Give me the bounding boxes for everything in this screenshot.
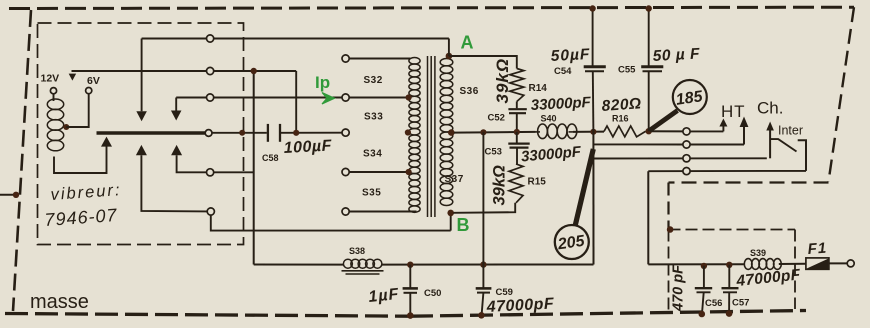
junction C50 branch xyxy=(407,262,413,268)
wire row 144.5 to Ch arrow xyxy=(690,144,744,146)
wire C57 lead xyxy=(728,265,730,288)
contact arrow 1 (down) xyxy=(136,111,147,121)
S40 leads xyxy=(536,131,541,133)
switch Inter contact xyxy=(798,140,806,171)
junction C58 right xyxy=(293,130,299,136)
svg-text:R16: R16 xyxy=(612,114,629,124)
wire tap row 211.5 xyxy=(349,211,417,213)
masse chassis border left (tilted) xyxy=(13,10,31,311)
junction C50 masse xyxy=(407,312,414,319)
wire C50 to masse xyxy=(409,293,411,316)
socket terminal 1 xyxy=(207,35,214,42)
wire C55 to R16 node xyxy=(648,71,650,131)
primary tap junction row172 xyxy=(406,169,412,175)
wire C59 to masse xyxy=(482,293,484,315)
wire row132 to C53 xyxy=(516,132,518,143)
capacitor C57 plates xyxy=(722,287,739,289)
wire drop to contact arrow 1 xyxy=(141,39,143,112)
junction C59/S38 row xyxy=(480,261,486,267)
capacitor C59 plates xyxy=(476,287,492,290)
wire elbow below terminal 6 xyxy=(211,215,451,231)
tap terminal row 211.5 xyxy=(342,208,349,215)
capacitor C55 plates xyxy=(641,65,663,68)
svg-text:C56: C56 xyxy=(705,298,722,309)
svg-text:C55: C55 xyxy=(618,65,636,76)
wire C59 vertical xyxy=(482,132,484,287)
wire coil tap to 6V xyxy=(66,94,88,127)
svg-text:820Ω: 820Ω xyxy=(601,95,642,115)
svg-text:masse: masse xyxy=(30,291,89,313)
choke S40 xyxy=(538,124,548,139)
svg-text:12V: 12V xyxy=(41,73,60,85)
masse chassis border top xyxy=(9,7,854,8)
wire C50 lead xyxy=(409,265,411,288)
svg-text:C54: C54 xyxy=(554,66,572,77)
transformer core xyxy=(427,56,429,217)
terminal 6V xyxy=(86,88,92,94)
svg-text:S38: S38 xyxy=(349,246,365,256)
filter box top edge xyxy=(669,229,796,231)
wire reed row to C58 xyxy=(212,132,267,134)
output terminal circle row131 xyxy=(683,128,690,135)
masse stub wire at left edge xyxy=(0,194,19,196)
wire C54 to row132 xyxy=(592,71,595,132)
coil tap junction xyxy=(63,124,69,130)
svg-text:Ch.: Ch. xyxy=(757,99,783,118)
secondary top junction (node A) xyxy=(446,53,453,60)
capacitor C53 plates xyxy=(508,143,529,145)
wire drop x296 row71 to C58 right xyxy=(295,71,297,133)
wire bus to S38 xyxy=(254,264,344,266)
junction C57 masse xyxy=(726,310,733,317)
wire output row 144.4 xyxy=(594,143,684,145)
output terminal xyxy=(847,260,854,267)
wire tap row 58.5 xyxy=(349,58,411,60)
contact arrow B (up) xyxy=(136,145,147,155)
junction C56 masse xyxy=(699,311,706,318)
capacitor C52 plates xyxy=(508,108,526,110)
wire row132 secondary tap to S40 xyxy=(454,131,536,134)
socket terminal 3 xyxy=(207,94,214,101)
primary tap junction row97.5 xyxy=(406,94,412,100)
supply bus x=593.4 down xyxy=(592,132,594,265)
junction C54 at masse xyxy=(589,5,595,11)
junction C59 masse xyxy=(478,312,485,319)
masse chassis border bottom xyxy=(5,314,410,317)
transformer primary winding (S32-S35) xyxy=(409,58,420,65)
wire F1 to output xyxy=(829,262,847,264)
filter box left edge xyxy=(668,230,670,314)
wire Ch-bus drop x648 xyxy=(647,171,649,264)
wire coil bottom to contact arm xyxy=(54,147,107,174)
svg-text:100µF: 100µF xyxy=(283,137,333,157)
choke S39 xyxy=(744,259,752,270)
transformer secondary winding (S36,S37) xyxy=(440,59,453,66)
contact arrow C (up) xyxy=(171,145,182,155)
svg-text:S40: S40 xyxy=(541,114,557,124)
svg-text:HT: HT xyxy=(721,102,745,121)
junction C57 branch xyxy=(726,262,732,268)
test point 205 pointer xyxy=(575,149,594,229)
resistor R14 (39kΩ) xyxy=(510,69,524,102)
wire arrow B to terminal row 211.5 xyxy=(141,155,207,211)
supply arrow (down) near 6V xyxy=(69,74,77,81)
junction C52/C53 row132 xyxy=(514,129,520,135)
wire C56 to masse xyxy=(702,292,704,313)
vibreur box (dashed) xyxy=(38,23,244,245)
svg-text:A: A xyxy=(461,33,474,53)
wire tap row 172 xyxy=(349,171,409,173)
wire row 131.4 to HT xyxy=(690,130,723,132)
junction C54 row132 xyxy=(590,129,596,135)
svg-text:R14: R14 xyxy=(529,83,548,94)
masse border drop to filter box xyxy=(667,183,669,230)
wire S39 to F1 xyxy=(779,263,806,265)
switch Inter blade xyxy=(770,139,796,151)
wire output row 171 xyxy=(648,170,806,172)
svg-text:1µF: 1µF xyxy=(368,286,401,306)
svg-text:C53: C53 xyxy=(485,147,502,158)
output terminal circle row158 xyxy=(683,155,690,162)
svg-text:C50: C50 xyxy=(424,288,441,299)
reed bar (thick) xyxy=(97,131,206,135)
svg-text:50 µ F: 50 µ F xyxy=(652,46,700,65)
tap terminal row 97.5 xyxy=(342,94,349,101)
svg-text:47000pF: 47000pF xyxy=(485,295,555,316)
wire S40 to R16 xyxy=(573,131,604,133)
wire terminal row 38.5 xyxy=(142,38,449,40)
wire filter input row xyxy=(648,263,744,265)
svg-text:B: B xyxy=(457,215,470,235)
junction R16/C55 node xyxy=(646,128,652,134)
wire arrow C to terminal row 172.3 xyxy=(177,155,207,172)
socket terminal 2 xyxy=(207,67,214,74)
green Ip arrow xyxy=(322,93,335,105)
wire R14 to C52 xyxy=(516,102,518,109)
wire C54 top to masse border xyxy=(592,9,594,67)
secondary bottom junction (node B) xyxy=(447,210,454,217)
svg-text:39kΩ: 39kΩ xyxy=(491,165,509,206)
vertical bus x=253.7 xyxy=(253,71,255,265)
contact arrow A (up) xyxy=(101,137,112,147)
primary tap junction row132.6 xyxy=(405,129,411,135)
filter box right edge xyxy=(794,230,796,310)
svg-text:S37: S37 xyxy=(445,174,464,185)
contact arrow 2 (down) xyxy=(171,111,182,121)
vibrator drive coil L1 xyxy=(47,99,63,110)
HT arrow xyxy=(722,126,724,132)
svg-text:6V: 6V xyxy=(87,75,100,87)
capacitor C58 plates xyxy=(267,124,269,142)
junction C56 branch xyxy=(701,263,707,269)
Inter arrow xyxy=(769,130,771,158)
wire row38.5 drop to A xyxy=(448,39,450,57)
wire output row 158.4 xyxy=(594,157,767,159)
svg-text:C57: C57 xyxy=(732,298,749,309)
resistor R16 (820Ω) xyxy=(604,126,646,137)
socket terminal 5 xyxy=(207,169,214,176)
wire R15 bottom to node B xyxy=(454,203,516,213)
wire R16 to terminal xyxy=(646,130,684,132)
reed terminal circle xyxy=(205,130,212,137)
wire C57 to masse xyxy=(728,292,730,313)
wire C55 top to masse border xyxy=(648,9,650,67)
tap terminal row 132.6 xyxy=(342,129,349,136)
svg-text:39kΩ: 39kΩ xyxy=(493,58,512,104)
junction C59 branch xyxy=(480,129,486,135)
wire C58 right xyxy=(281,132,342,134)
socket terminal 6 xyxy=(207,208,214,215)
svg-text:Inter: Inter xyxy=(778,124,803,138)
secondary center tap junction xyxy=(448,129,455,136)
svg-text:S39: S39 xyxy=(750,248,766,258)
test point 205 circle xyxy=(555,225,589,259)
svg-text:470 pF: 470 pF xyxy=(671,264,687,312)
wire C53 to R15 xyxy=(516,148,518,164)
S38 core lines xyxy=(342,270,384,272)
wire B drop xyxy=(450,214,452,230)
output terminal circle row144 xyxy=(683,141,690,148)
test point 185 pointer xyxy=(650,111,678,131)
svg-text:R15: R15 xyxy=(528,177,547,188)
wire terminal row 71 xyxy=(72,70,297,72)
terminal 12V xyxy=(50,88,56,94)
svg-text:S35: S35 xyxy=(362,188,381,199)
svg-text:S36: S36 xyxy=(460,86,479,97)
fuse F1 xyxy=(806,258,829,269)
output terminal circle row171 xyxy=(683,168,690,175)
wire drop to contact arrow 2 xyxy=(175,98,177,111)
masse chassis border right (tilted) xyxy=(829,7,855,181)
svg-text:C59: C59 xyxy=(496,287,513,298)
junction filter box corner (470pF) xyxy=(667,226,674,233)
wire S38 to bus corner x593 xyxy=(382,264,594,266)
capacitor C56 plates xyxy=(695,287,712,289)
tap terminal row 58.5 xyxy=(342,55,349,62)
Ch arrow xyxy=(743,125,745,145)
svg-text:33000pF: 33000pF xyxy=(530,94,592,114)
wire C56 lead xyxy=(703,266,705,288)
junction C55 at masse xyxy=(646,5,652,11)
wire 12V terminal to coil xyxy=(53,94,55,101)
capacitor C54 plates xyxy=(584,65,606,68)
wire node A to R14 top xyxy=(449,56,517,69)
resistor R15 (39kΩ) xyxy=(509,164,523,203)
svg-text:C52: C52 xyxy=(488,113,505,124)
masse stub junction xyxy=(13,192,19,198)
tap terminal row 172 xyxy=(342,168,349,175)
wire row 172.3 to center-tap bus xyxy=(214,171,254,173)
svg-text:S34: S34 xyxy=(363,149,382,160)
masse border mid-right horizontal xyxy=(669,181,829,183)
svg-text:S32: S32 xyxy=(364,75,383,86)
svg-text:C58: C58 xyxy=(262,153,279,163)
svg-text:Ip: Ip xyxy=(315,73,330,92)
choke S38 xyxy=(343,259,352,268)
test point 185 circle xyxy=(673,80,707,114)
wire C52 to row132 xyxy=(516,113,518,132)
svg-text:50µF: 50µF xyxy=(550,46,590,65)
svg-text:S33: S33 xyxy=(364,112,383,123)
wire terminal row 97.5 xyxy=(176,97,408,99)
capacitor C50 plates xyxy=(403,287,418,290)
svg-text:F1: F1 xyxy=(807,240,828,258)
junction row71/bus xyxy=(251,68,257,74)
junction reed row at box edge xyxy=(239,130,245,136)
